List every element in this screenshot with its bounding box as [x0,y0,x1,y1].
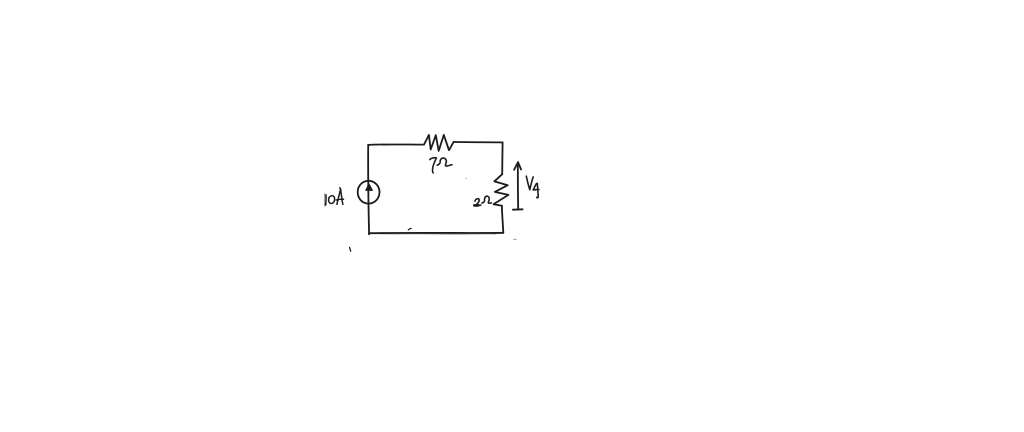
wire left segment (through source) [367,145,370,234]
stray dash above bottom wire [408,228,411,230]
wire bottom segment [369,232,503,234]
wire top-left segment [368,143,424,145]
label 2ohm [474,196,491,205]
label 10A [325,188,344,207]
voltage arrow VG bottom bar [513,208,523,210]
wire right upper segment [501,142,503,174]
stray tick mark (below left of circuit) [350,247,351,251]
voltage arrow VG line [517,164,519,210]
wire right lower segment [502,206,503,233]
resistor R1 7ohm (top) [424,135,454,151]
wire top-right segment [454,141,503,144]
voltage arrow VG head [514,162,521,170]
current source I1 circle [358,181,380,204]
wire bottom segment roughness [380,233,496,235]
current source arrowhead [366,184,373,191]
label 7ohm [430,158,452,173]
faint speck [466,178,468,180]
faint dash right of bottom wire [514,238,517,240]
resistor R2 2ohm (right) [494,174,509,206]
label VG [526,176,539,198]
